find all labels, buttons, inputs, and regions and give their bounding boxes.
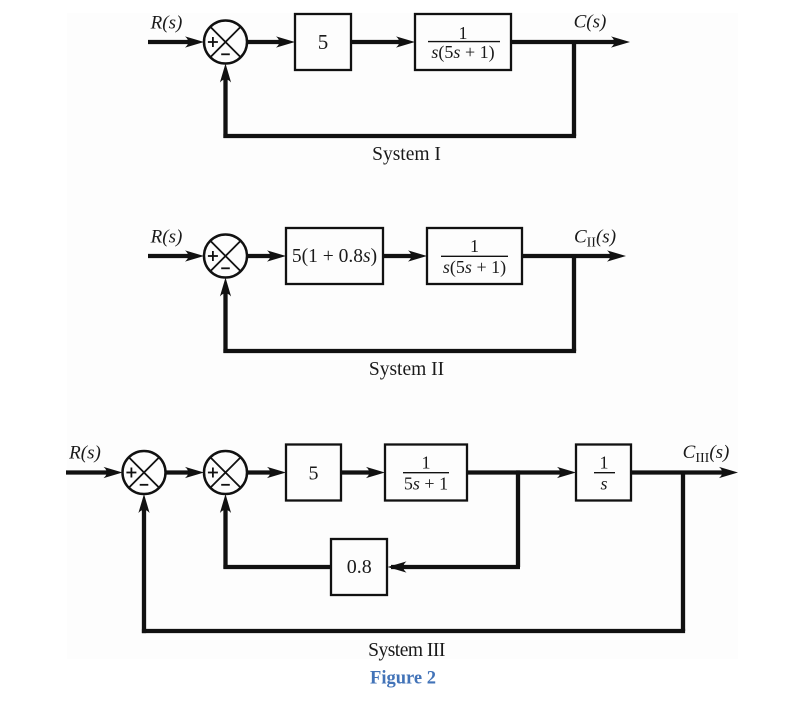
block 1/(s(5s+1)) system I plant [415,14,511,70]
wire S3a to S3b [165,467,204,478]
svg-text:1: 1 [459,23,468,43]
wire outer feedback loop system III [138,471,685,634]
svg-text:1: 1 [470,236,479,256]
wire block 5 to plant block [351,36,415,47]
svg-text:5: 5 [318,30,329,54]
svg-text:5: 5 [309,463,319,485]
wire feedback loop system I [220,40,576,138]
scanned figure background [67,13,738,659]
svg-text:System II: System II [369,359,444,380]
summing junction S3b [204,451,247,494]
svg-text:1: 1 [422,453,431,473]
wire input system III [66,467,123,478]
block 0.8 inner feedback gain [331,539,387,595]
svg-text:System III: System III [368,640,445,661]
svg-text:s(5s + 1): s(5s + 1) [443,257,506,278]
wire S2 to controller block [246,250,286,261]
svg-text:s(5s + 1): s(5s + 1) [431,42,494,63]
block 1/(5s+1) [385,445,467,501]
block 5(1 + 0.8s) PD controller [286,228,383,284]
svg-text:CII(s): CII(s) [574,227,616,251]
wire output system II [522,250,626,261]
wire output system I [511,36,630,47]
summing junction S1 [204,21,247,64]
summing junction S2 [204,235,247,278]
svg-text:0.8: 0.8 [347,556,372,578]
block 5 (system III gain) [286,445,341,501]
block 1/s integrator [576,445,631,501]
wire block 0.8 to S3b [220,494,331,569]
wire block 5 to block 1/(5s+1) [341,467,385,478]
svg-text:System I: System I [372,144,441,165]
wire controller to plant system II [383,250,427,261]
svg-text:s: s [600,474,607,494]
wire feedback loop system II [220,254,576,353]
wire S1 to block 5 [246,36,295,47]
svg-text:Figure 2: Figure 2 [370,669,436,689]
wire input system I [148,36,204,47]
wire input system II [148,250,204,261]
wire block 1/(5s+1) to integrator [467,467,576,478]
wire S3b to block 5 [246,467,286,478]
block 1/(s(5s+1)) system II plant [427,228,522,284]
block 5 (system I gain) [295,14,351,70]
svg-text:1: 1 [600,453,609,473]
svg-text:R(s): R(s) [150,227,183,248]
summing junction S3a [123,451,166,494]
svg-text:R(s): R(s) [150,12,183,33]
svg-text:5s + 1: 5s + 1 [404,474,448,494]
svg-text:R(s): R(s) [68,443,101,464]
svg-text:C(s): C(s) [574,12,607,33]
wire inner feedback takeoff to block 0.8 [388,471,521,573]
wire output system III [631,467,738,478]
svg-text:5(1 + 0.8s): 5(1 + 0.8s) [292,246,377,267]
